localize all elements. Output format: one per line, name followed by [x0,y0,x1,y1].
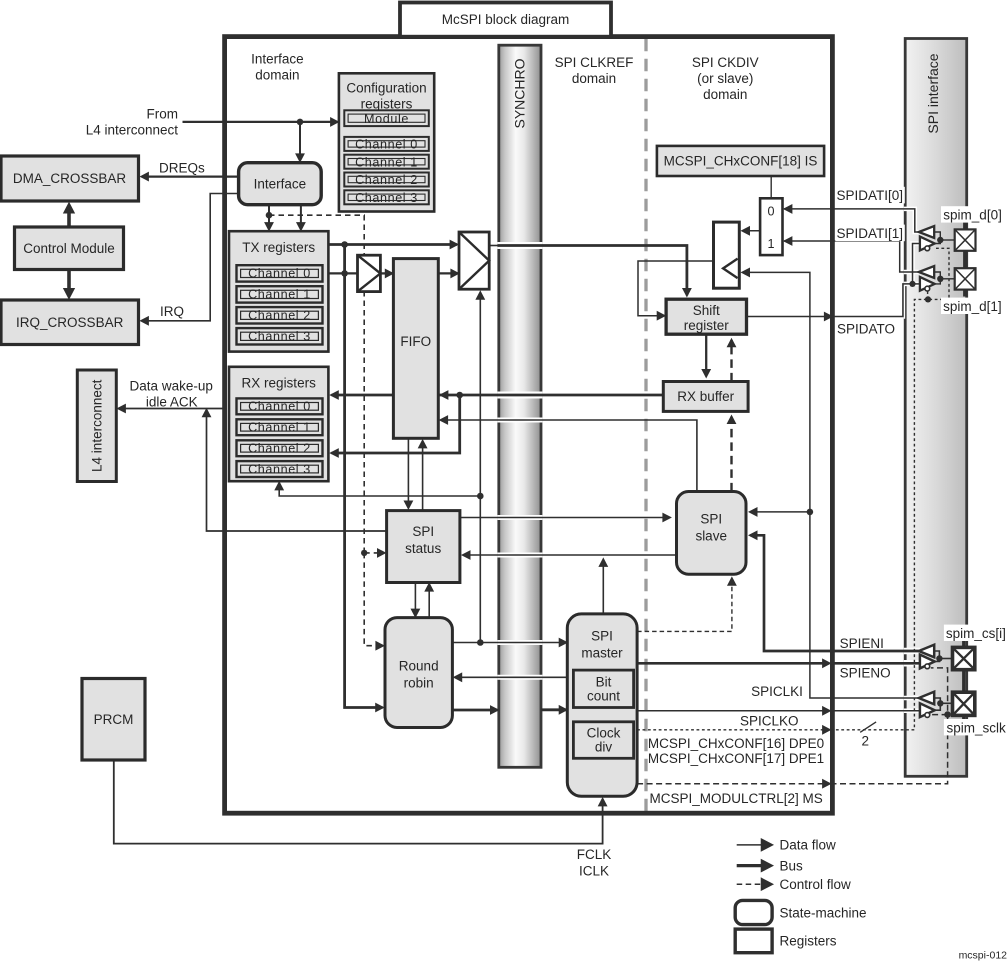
Clock div [573,722,633,759]
SPI status [387,511,460,583]
svg-text:RX buffer: RX buffer [677,389,734,404]
wire 0/1 mux to shift FF [742,227,761,235]
L4 interconnect [77,370,116,482]
pad stub below spim_d[1] [963,290,967,297]
TX Channel 3 [237,328,323,344]
shift clock FF symbol [714,222,740,288]
IO cell spim_d[0]: pad net [934,232,955,244]
main outer box [225,37,833,814]
label spim_d[0] [941,206,1008,223]
wire SPI status down to Round robin [411,583,419,618]
wire MS dashed from SPI master to cs/sclk enables [637,668,948,784]
wire thick elbow to RX registers channel 2 [330,395,459,457]
wire From L4 interconnect to config registers [183,118,339,126]
svg-text:SYNCHRO: SYNCHRO [512,58,528,128]
svg-text:Control Module: Control Module [23,241,115,256]
wire FIFO to big mux [438,269,459,277]
svg-text:RX registers: RX registers [242,376,317,391]
wire vertical x481 big mux to round robin output [476,291,484,646]
wire SPI slave top to FIFO right [440,416,697,492]
svg-text:Control flow: Control flow [780,877,852,892]
pad stub below spim_sclk [962,715,965,722]
IRQ_CROSSBAR [1,300,139,345]
wire shift register down to RX buffer [702,334,710,377]
svg-text:domain: domain [255,68,299,83]
svg-text:Data flow: Data flow [780,838,837,853]
svg-text:Channel 3: Channel 3 [248,462,311,476]
label SPIDATI[0] [835,187,905,204]
legend bus arrow [737,860,773,871]
svg-text:ICLK: ICLK [579,864,609,879]
legend data flow arrow [737,839,773,850]
svg-text:spim_d[1]: spim_d[1] [943,299,1002,314]
svg-text:Channel 1: Channel 1 [248,288,311,302]
RX Channel 3 [237,461,323,477]
RX Channel 0 [237,398,323,414]
big mux symbol [459,232,489,289]
wire Round robin output to SPI master through SYNCHRO [452,638,567,646]
svg-text:IRQ: IRQ [160,304,184,319]
wire SPIDATI[0] [784,205,919,232]
svg-text:FCLK: FCLK [577,847,612,862]
svg-text:SPI CKDIV: SPI CKDIV [692,55,759,70]
svg-text:SPI interface: SPI interface [925,53,941,133]
svg-text:From: From [147,107,179,122]
label spim_sclk [944,719,1008,736]
wire SPIENI from pad to SPI slave [749,531,919,651]
label SPIDATI[1] [835,225,905,242]
wire FIFO down to SPI status [404,438,412,509]
SYNCHRO bar [499,45,541,767]
label SPIDATO [836,321,897,337]
SPI interface bar [905,39,967,777]
svg-text:MCSPI_MODULCTRL[2] MS: MCSPI_MODULCTRL[2] MS [650,791,823,806]
svg-text:idle ACK: idle ACK [146,395,198,410]
svg-text:mcspi-012: mcspi-012 [959,950,1008,962]
legend [735,839,772,953]
pad stub spim_d[0] [963,222,967,230]
wire SPI master dashed to SPI slave bottom [637,577,736,631]
svg-text:McSPI block diagram: McSPI block diagram [442,12,570,27]
IO cell spim_d[1]: pad net [934,272,955,284]
svg-text:DREQs: DREQs [159,160,205,175]
svg-text:PRCM: PRCM [94,712,134,727]
DMA_CROSSBAR [1,156,139,201]
TX Channel 2 [237,307,323,323]
svg-text:domain: domain [572,71,616,86]
Interface block [239,163,322,205]
svg-text:div: div [595,740,613,755]
svg-text:count: count [587,688,620,703]
wire SPIENO from SPI master to pad cell [637,659,920,667]
bus-width slash /2 [860,722,876,732]
svg-text:SPI: SPI [700,512,722,527]
svg-text:SPIENI: SPIENI [840,636,884,651]
pad stub between spim_cs and spim_sclk [962,670,965,693]
svg-text:robin: robin [404,676,434,691]
svg-text:Channel 2: Channel 2 [248,442,311,456]
TX Channel 0 [237,265,323,281]
IO cell spim_sclk: pad net [934,698,952,710]
svg-text:domain: domain [703,87,747,102]
pad spim_sclk [953,692,975,715]
IO cell spim_d[0]: input buffer [919,226,935,251]
TX registers group [229,231,328,351]
wire Interface down to TX registers (left) [265,205,273,231]
domain divider dashed [644,39,647,811]
svg-text:Channel 3: Channel 3 [355,191,418,205]
svg-text:Bus: Bus [780,858,804,873]
Round robin [385,618,452,728]
SPI slave [677,492,747,575]
wire SYNCHRO thick to Bit count [541,706,567,714]
wire L4 junction down to Interface [296,122,304,162]
svg-text:L4 interconnect: L4 interconnect [89,379,104,472]
svg-text:Registers: Registers [780,933,837,948]
wire vertical bus down to Round robin [345,245,384,712]
wire SPI slave dashed up to RX buffer [727,416,735,492]
svg-text:DMA_CROSSBAR: DMA_CROSSBAR [13,171,127,186]
svg-text:register: register [684,318,730,333]
wire dashed control from Interface to SPI status and Round robin [269,215,383,646]
wire IRQ [141,194,239,325]
wire TX registers to small mux [328,270,357,277]
wire SPI slave to SPI status lower / SPI master riser [462,551,676,559]
legend state-machine symbol [735,900,772,924]
wire FF output loop to shift register input [638,261,714,320]
wire RX buffer to RX registers (thick) [330,391,663,399]
pad spim_d[1] [955,268,976,289]
title box [400,3,611,37]
svg-text:Bit: Bit [596,674,612,689]
wire SPIDATO from shift register to output buffers [747,244,920,317]
wire SPI status right to SPI slave through SYNCHRO [460,513,671,521]
Module register box [344,110,429,126]
svg-text:SPIDATI[0]: SPIDATI[0] [837,188,904,203]
svg-text:Interface: Interface [254,176,307,191]
wire PRCM FCLK/ICLK to SPI master [114,760,607,844]
svg-text:registers: registers [361,97,413,112]
svg-text:slave: slave [695,529,727,544]
svg-text:0: 0 [767,205,774,219]
Channel 2 config [344,173,429,188]
wire RX buffer dashed up to shift register [727,339,735,382]
svg-text:Round: Round [399,659,439,674]
wire big mux through SYNCHRO to shift register [489,246,691,297]
Channel 1 config [344,155,429,170]
svg-text:Channel 0: Channel 0 [355,138,418,152]
svg-text:1: 1 [767,237,774,251]
svg-text:spim_sclk: spim_sclk [947,721,1007,736]
wire Round robin up to SPI status [425,583,433,617]
IO cell spim_cs: pad net [934,651,952,662]
svg-text:Configuration: Configuration [346,81,426,96]
wire small mux to FIFO [380,269,393,277]
svg-text:Channel 0: Channel 0 [248,267,311,281]
IO cell spim_d[1]: output buffer [920,277,935,291]
svg-text:SPIENO: SPIENO [840,666,891,681]
TX Channel 1 [237,286,323,302]
svg-text:MCSPI_CHxCONF[18] IS: MCSPI_CHxCONF[18] IS [664,154,818,169]
wire SPICLKO from SPI master to pad cell [637,707,920,715]
svg-text:Shift: Shift [693,303,720,318]
IO cell spim_d[1]: input buffer [919,266,935,291]
white casing where signal lines cross gradient bars [450,209,921,711]
svg-text:(or slave): (or slave) [697,71,753,86]
svg-text:Channel 0: Channel 0 [248,400,311,414]
svg-text:Channel 1: Channel 1 [355,155,418,169]
wire SPI status up to FIFO [419,440,427,511]
svg-text:SPIDATI[1]: SPIDATI[1] [837,226,904,241]
RX registers group [229,367,328,481]
IO cell spim_cs: output buffer [920,655,935,669]
svg-text:SPI: SPI [591,629,613,644]
SPI master [567,614,637,796]
svg-text:Interface: Interface [251,52,304,67]
label spim_cs[i] [944,625,1008,641]
IO cell spim_sclk: output buffer [920,703,935,717]
Control Module [15,227,124,270]
pad stub spim_cs [962,641,965,648]
wire Round robin thick output to SYNCHRO [452,706,498,714]
svg-text:SPI CLKREF: SPI CLKREF [555,55,634,70]
MCSPI_CHxCONF[18] IS box [657,146,824,176]
svg-text:Clock: Clock [587,726,621,741]
svg-text:Module: Module [364,112,409,126]
svg-text:Channel 1: Channel 1 [248,421,311,435]
svg-text:SPICLKO: SPICLKO [740,714,799,729]
Channel 3 config [344,190,429,205]
svg-text:IRQ_CROSSBAR: IRQ_CROSSBAR [16,315,124,330]
IO cell spim_d[0]: output buffer [920,237,935,251]
IO cell spim_sclk: input buffer [919,692,935,718]
svg-text:State-machine: State-machine [780,905,867,920]
FIFO [393,259,438,439]
wire RX registers bottom riser to y496 line [275,482,480,496]
RX Channel 1 [237,419,323,435]
wire SPIDATI[1] [784,237,919,272]
wire CONF18 box down to 0/1 mux [770,176,772,198]
svg-text:MCSPI_CHxCONF[17] DPE1: MCSPI_CHxCONF[17] DPE1 [648,751,824,766]
wire SPICLKI from pad up to SPI slave and shift FF clock [743,272,919,698]
svg-text:L4 interconnect: L4 interconnect [86,123,179,138]
svg-text:status: status [405,541,441,556]
svg-text:master: master [581,646,623,661]
svg-text:Data wake-up: Data wake-up [130,379,213,394]
wire Bit count to Round robin right input through SYNCHRO [454,673,574,681]
svg-text:Channel 2: Channel 2 [355,173,418,187]
PRCM [82,679,145,761]
Configuration registers group [339,73,434,211]
svg-text:TX registers: TX registers [242,240,315,255]
legend registers symbol [735,929,772,953]
Bit count [573,670,633,707]
Channel 0 config [344,137,429,152]
RX Channel 2 [237,440,323,456]
wire DREQs [141,173,239,181]
svg-text:Channel 3: Channel 3 [248,330,311,344]
IO cell spim_cs: input buffer [919,645,935,669]
small mux symbol [358,255,381,291]
pad spim_cs [953,647,975,669]
svg-text:SPI: SPI [412,524,434,539]
svg-text:MCSPI_CHxCONF[16] DPE0: MCSPI_CHxCONF[16] DPE0 [648,736,824,751]
Shift register [666,299,746,334]
svg-text:2: 2 [862,734,870,749]
RX buffer [663,382,748,412]
svg-text:spim_cs[i]: spim_cs[i] [946,626,1006,641]
wire SPI status to L4 idle ACK [202,409,386,531]
wire TX registers bus to big mux [328,240,458,248]
wire DPE dotted from Clock div to pad enables [637,248,949,730]
wire Interface down to TX registers (right) [297,205,305,231]
pad spim_d[0] [955,229,976,250]
pad stub between spim_d[0] and spim_d[1] [963,251,967,268]
svg-text:spim_d[0]: spim_d[0] [943,208,1002,223]
label spim_d[1] [941,298,1005,314]
wire Control Module down to IRQ_CROSSBAR [64,270,74,299]
svg-text:SPIDATO: SPIDATO [837,321,895,336]
svg-text:Channel 2: Channel 2 [248,309,311,323]
wire Control Module up to DMA_CROSSBAR [64,203,74,227]
legend control flow arrow [737,878,773,889]
svg-text:SPICLKI: SPICLKI [751,684,803,699]
0/1 input mux [760,198,782,255]
svg-text:FIFO: FIFO [400,334,431,349]
